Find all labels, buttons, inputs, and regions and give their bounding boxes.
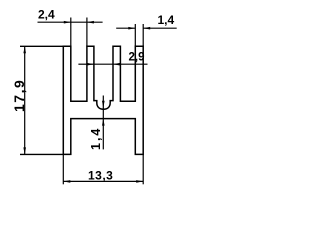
- arrow right at 93.9: [87, 63, 94, 66]
- dimension 2,4 (top left): [38, 18, 103, 47]
- arrow up at 118.6: [102, 119, 105, 126]
- dimension 1,4 (bottom, vertical): [102, 96, 104, 150]
- arrow left at 63.3: [63, 180, 70, 183]
- dimension 1,4 (top right): [116, 24, 177, 46]
- svg-text:1,4: 1,4: [158, 13, 175, 27]
- dim line: [38, 21, 71, 23]
- dim line: [24, 46, 26, 154]
- heatsink profile outline: [63, 46, 143, 154]
- svg-text:13,3: 13,3: [88, 169, 113, 183]
- svg-text:2,4: 2,4: [38, 7, 55, 21]
- arrow down at 108.8: [102, 101, 105, 108]
- extension lines: [62, 154, 64, 184]
- arrow left at 86.9: [87, 21, 94, 24]
- extension lines: [70, 18, 72, 47]
- svg-text:2,9: 2,9: [129, 51, 145, 63]
- extension lines: [20, 45, 63, 47]
- arrow right at 143.2: [136, 180, 143, 183]
- dim line: [63, 180, 143, 182]
- arrow down at 154.4: [23, 147, 26, 154]
- arrow up at 46.3: [23, 46, 26, 53]
- arrow right at 135.3: [128, 27, 135, 30]
- dimension 2,9 (middle): [78, 63, 147, 65]
- svg-text:1,4: 1,4: [89, 127, 103, 150]
- arrow left at 143.2: [143, 27, 150, 30]
- dimension 13,3 (bottom): [63, 154, 143, 184]
- arrow left at 113: [113, 63, 120, 66]
- svg-text:17,9: 17,9: [11, 79, 27, 112]
- dimension 17,9 (left): [20, 46, 63, 154]
- arrow right at 70.8: [64, 21, 71, 24]
